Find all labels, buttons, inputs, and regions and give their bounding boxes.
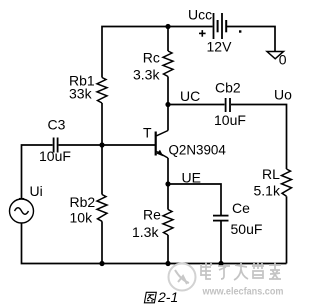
ground 0: [267, 52, 284, 59]
wire Ce bottom to rail: [220, 221, 222, 264]
wire Cb2 to RL top: [231, 105, 287, 170]
wire base node to transistor base: [102, 144, 155, 146]
svg-text:3.3k: 3.3k: [133, 67, 160, 83]
capacitor C3: [54, 138, 58, 153]
svg-text:10k: 10k: [70, 210, 94, 226]
wire C3 right to base node: [59, 144, 102, 146]
resistor Rb2: [97, 195, 107, 222]
resistor Rc: [163, 51, 173, 77]
svg-text:10uF: 10uF: [39, 148, 71, 164]
svg-text:RL: RL: [262, 166, 280, 182]
node junction top rail / Rc: [165, 24, 170, 29]
svg-text:Ui: Ui: [30, 183, 43, 199]
svg-text:5.1k: 5.1k: [254, 182, 281, 198]
svg-text:UC: UC: [180, 88, 200, 104]
label Ui: [30, 183, 43, 199]
svg-text:Rc: Rc: [143, 50, 160, 66]
node base junction: [99, 142, 104, 147]
svg-text:50uF: 50uF: [231, 221, 263, 237]
wire UE node to Ce: [168, 184, 221, 215]
label 0: [279, 52, 287, 68]
svg-text:Ce: Ce: [232, 200, 250, 216]
label 5.1k: [254, 182, 281, 198]
wire Rc leads: [167, 27, 169, 105]
label 12V: [207, 39, 233, 55]
svg-text:2-1: 2-1: [157, 289, 178, 305]
svg-text:C3: C3: [48, 116, 66, 132]
wire RL bottom lead: [286, 196, 288, 263]
source Ui (AC): [10, 199, 34, 223]
capacitor Ce: [213, 216, 229, 221]
wire Rb1 bottom to base node (x=102 vertical): [101, 103, 103, 145]
label 1.3k: [132, 224, 159, 240]
node Ce bottom: [218, 261, 223, 266]
wire C3 left to Ui top: [22, 145, 53, 199]
svg-text:UE: UE: [182, 169, 201, 185]
wire top rail from Rb1 top to battery: [102, 27, 213, 78]
label 10uF of C3: [39, 148, 71, 164]
svg-text:12V: 12V: [207, 39, 233, 55]
label Ucc: [188, 7, 212, 23]
svg-text:Uo: Uo: [274, 86, 292, 102]
label Q2N3904: [169, 142, 227, 157]
svg-text:1.3k: 1.3k: [132, 224, 159, 240]
label T: [143, 124, 152, 140]
label 10k: [70, 210, 94, 226]
node UE: [165, 181, 170, 186]
svg-text:Cb2: Cb2: [215, 80, 241, 96]
watermark text www.elecfans.com: [202, 286, 284, 298]
wire Rb2 leads: [101, 145, 103, 264]
label Rb1: [69, 73, 95, 89]
label Ce: [232, 200, 250, 216]
label 50uF: [231, 221, 263, 237]
node Re bottom: [165, 261, 170, 266]
svg-text:Re: Re: [143, 207, 161, 223]
watermark text 电子发烧友: [201, 262, 281, 280]
svg-text:www.elecfans.com: www.elecfans.com: [202, 286, 284, 298]
label Rc: [143, 50, 160, 66]
node Rb2 bottom: [99, 261, 104, 266]
resistor Rb1: [97, 78, 107, 104]
wire UC to Cb2: [168, 104, 225, 106]
svg-text:Rb2: Rb2: [70, 194, 96, 210]
svg-text:33k: 33k: [69, 86, 93, 102]
label Cb2: [215, 80, 241, 96]
resistor Re: [163, 210, 173, 236]
svg-text:Q2N3904: Q2N3904: [169, 142, 227, 157]
label Rb2: [70, 194, 96, 210]
label RL: [262, 166, 280, 182]
label + of battery: [199, 30, 206, 37]
battery U_cc: [214, 13, 242, 39]
caption 图2-1: [144, 289, 178, 305]
label 3.3k: [133, 67, 160, 83]
label 10uF of Cb2: [214, 112, 246, 128]
resistor RL: [282, 169, 292, 196]
watermark logo circle: [169, 264, 196, 291]
capacitor Cb2: [226, 98, 230, 112]
label UC: [180, 88, 200, 104]
wire Re leads: [167, 184, 169, 264]
svg-text:T: T: [143, 124, 152, 140]
label C3: [48, 116, 66, 132]
label Uo: [274, 86, 292, 102]
wire Ui bottom to ground rail: [22, 223, 287, 264]
label Re: [143, 207, 161, 223]
node UC: [165, 102, 170, 107]
label UE: [182, 169, 201, 185]
label 33k: [69, 86, 93, 102]
svg-text:Ucc: Ucc: [188, 7, 212, 23]
svg-text:0: 0: [279, 52, 287, 68]
svg-text:10uF: 10uF: [214, 112, 246, 128]
transistor T Q2N3904: [156, 105, 168, 185]
wire battery to ground: [227, 27, 275, 52]
